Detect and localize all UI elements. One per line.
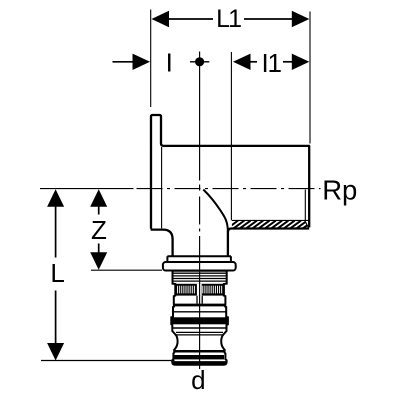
dimension L1: [151, 5, 310, 144]
sleeve gap ticks: [197, 296, 202, 304]
opening chamfer line: [305, 190, 308, 228]
extension line center left: [40, 188, 134, 190]
dimension I1: [231, 48, 309, 221]
fitting outline: [151, 115, 310, 256]
svg-text:L1: L1: [216, 5, 241, 33]
svg-text:Rp: Rp: [322, 174, 357, 205]
extension line L bottom: [41, 360, 175, 362]
body outline fill: [151, 115, 309, 262]
flange inner edge thin: [161, 147, 163, 228]
extension line Z bottom: [91, 269, 162, 271]
svg-text:L: L: [50, 258, 64, 288]
collar: [163, 262, 236, 271]
rib lines: [172, 273, 227, 281]
svg-text:I1: I1: [261, 48, 281, 78]
press body step: [167, 256, 231, 262]
dimension I: [113, 48, 210, 78]
press spigot silhouette: [171, 271, 228, 365]
sleeve band lines: [173, 305, 227, 328]
svg-text:d: d: [191, 365, 205, 395]
bottom edge band: [172, 361, 226, 365]
knurl band: [175, 284, 224, 296]
bead dark band: [174, 355, 224, 359]
dimension Z: [90, 189, 107, 270]
dimension L: [47, 189, 65, 360]
elbow silhouette curve: [203, 190, 228, 233]
lower band lines: [176, 331, 223, 333]
svg-text:Z: Z: [91, 215, 107, 245]
thread bore top line: [232, 219, 308, 221]
centerline vertical: [199, 52, 201, 370]
svg-text:I: I: [166, 48, 173, 78]
bead top band: [174, 350, 224, 353]
dark band: [172, 317, 229, 324]
thread hatching: [227, 221, 320, 229]
centerline horizontal: [137, 188, 321, 190]
